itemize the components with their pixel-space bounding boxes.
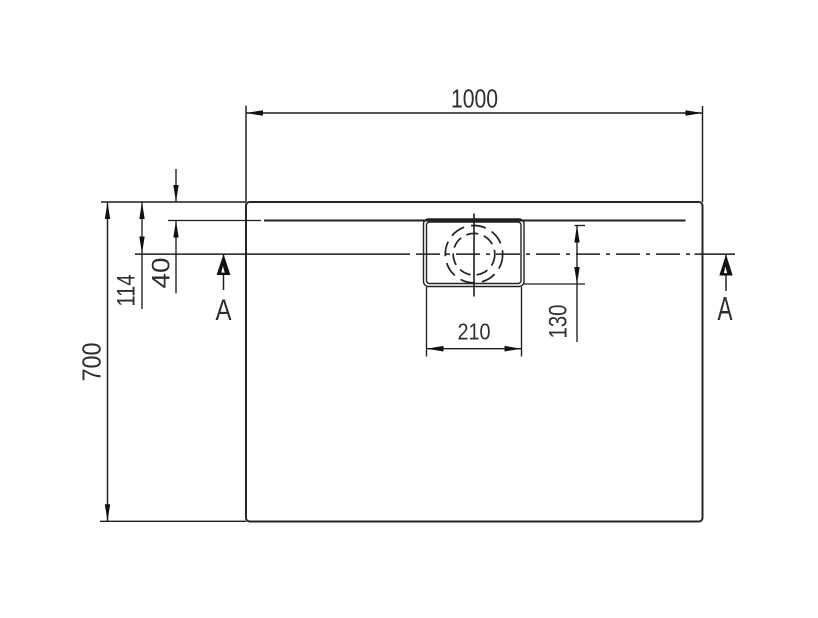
dimension 40 upper leg bbox=[175, 169, 177, 202]
wire: extension 210 right (x=521.5) bbox=[521, 287, 523, 357]
svg-text:A: A bbox=[216, 294, 232, 327]
arrow 130 up bbox=[574, 226, 579, 243]
arrow 700 top bbox=[105, 202, 110, 219]
centerline solid left part bbox=[135, 253, 410, 255]
wire: extension line above right (x=702.5) bbox=[702, 106, 704, 202]
dimension 210 line bbox=[427, 348, 522, 350]
dimension 130 top tick bbox=[575, 225, 586, 227]
svg-text:40: 40 bbox=[148, 258, 176, 289]
arrow 114 up bbox=[139, 202, 144, 219]
shower tray outline bbox=[246, 202, 703, 522]
svg-text:A: A bbox=[718, 290, 733, 327]
wire: extension line above left (x=246) bbox=[245, 106, 247, 203]
centerline last dash bbox=[695, 253, 736, 255]
svg-text:114: 114 bbox=[113, 274, 141, 306]
drain crosshair vertical bbox=[473, 214, 475, 297]
arrow 1000 right bbox=[686, 110, 703, 116]
drain outer dashed circle bbox=[445, 226, 502, 283]
drain frame outer bbox=[424, 219, 525, 287]
arrow 210 left bbox=[427, 346, 444, 352]
arrow 114 down bbox=[139, 237, 144, 254]
dimension 1000 line bbox=[246, 112, 703, 114]
dimension 130 line bbox=[576, 226, 578, 343]
svg-text:210: 210 bbox=[458, 319, 491, 345]
wire: extension from drain bottom (y=284) bbox=[524, 283, 585, 285]
tray inner top edge line bbox=[264, 220, 686, 222]
section arrow A right head bbox=[719, 255, 732, 276]
svg-text:130: 130 bbox=[545, 305, 573, 339]
arrow 210 right bbox=[505, 346, 522, 352]
dimension 700 line bbox=[107, 202, 109, 521]
arrow 130 down bbox=[574, 267, 579, 284]
wire: extension line top-left (y=202) bbox=[101, 201, 246, 203]
svg-text:1000: 1000 bbox=[451, 84, 498, 114]
dimension 114 line bbox=[141, 202, 143, 309]
wire: thin extension at y=220.5 bbox=[168, 220, 261, 222]
dimension 40 lower leg bbox=[175, 221, 177, 294]
arrow 40 up bbox=[173, 221, 178, 238]
wire: extension line bottom (y=521.5) bbox=[100, 520, 246, 522]
section arrow A left head bbox=[217, 254, 231, 275]
section arrow A left tail bbox=[223, 254, 225, 290]
section arrow A right tail bbox=[725, 255, 727, 292]
arrow 40 down bbox=[173, 185, 178, 202]
centerline dash-dot part bbox=[416, 253, 690, 255]
svg-text:700: 700 bbox=[77, 343, 107, 382]
arrow 1000 left bbox=[246, 110, 263, 116]
wire: extension 210 left (x=426.5) bbox=[426, 287, 428, 357]
arrow 700 bottom bbox=[105, 504, 110, 521]
drain inner dashed circle bbox=[453, 233, 495, 275]
drain frame inner bbox=[427, 222, 522, 284]
